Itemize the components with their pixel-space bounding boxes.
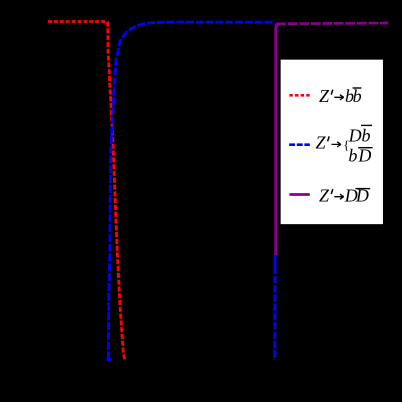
- curve Z'->bb (red dotted): flat top then plunge at first threshold: [48, 22, 108, 25]
- svg-text:Z: Z: [316, 133, 327, 153]
- legend sample: purple solid: [289, 193, 309, 196]
- legend sample: blue dashed: [289, 143, 310, 146]
- svg-text:b: b: [362, 125, 371, 145]
- svg-text:D: D: [348, 126, 362, 146]
- svg-text:b: b: [348, 145, 357, 165]
- legend box: [280, 59, 384, 225]
- blue bottom cap: [106, 358, 111, 361]
- red vertical plunge: [108, 22, 125, 361]
- svg-text:b: b: [353, 86, 362, 106]
- curve Z'->Db+bD (blue dashed): rise at first threshold, flat, plunge at second: [108, 22, 274, 359]
- svg-text:Z: Z: [319, 185, 330, 205]
- blue lower vertical (below purple): [273, 255, 276, 360]
- blue vertical under purple (solid, hidden): [275, 24, 278, 254]
- svg-text:D: D: [357, 146, 371, 166]
- svg-text:Z: Z: [319, 86, 330, 106]
- purple top horizontal (segmented): [277, 22, 389, 25]
- curve Z'->DD (purple solid): vertical rise at second threshold: [276, 24, 281, 255]
- legend sample: red dotted: [289, 94, 309, 97]
